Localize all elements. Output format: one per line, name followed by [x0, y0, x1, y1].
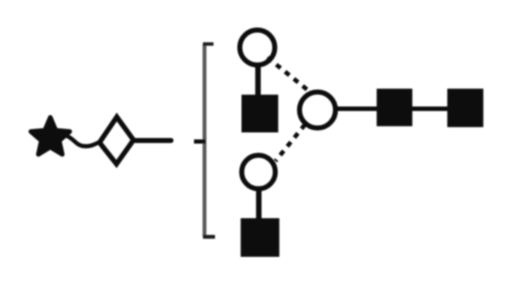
- bracket bottom arm: [203, 235, 215, 239]
- bracket vertical: [203, 44, 207, 238]
- wire diamond-right: [136, 138, 172, 143]
- circle top (open): [240, 30, 275, 65]
- dashed wire top-circle to mid-circle: [268, 58, 310, 92]
- circle middle (open): [300, 92, 336, 128]
- star (filled 5-point): [31, 117, 70, 154]
- square right 2 (filled): [447, 89, 483, 127]
- dashed wire mid-circle to lower-circle: [276, 125, 306, 162]
- wire square1 to square2: [412, 106, 448, 111]
- square right 1 (filled): [377, 89, 413, 127]
- square top (filled): [242, 95, 279, 133]
- diamond (open): [100, 117, 134, 164]
- wire star-diamond (squiggle): [67, 136, 99, 146]
- bracket middle tick: [194, 139, 206, 143]
- wire circle-square lower: [256, 189, 262, 219]
- bracket top arm: [203, 42, 214, 45]
- wire mid-circle to square1: [336, 106, 378, 111]
- square lower (filled): [241, 218, 280, 257]
- wire circle-square top: [255, 66, 261, 95]
- circle lower (open): [242, 155, 276, 189]
